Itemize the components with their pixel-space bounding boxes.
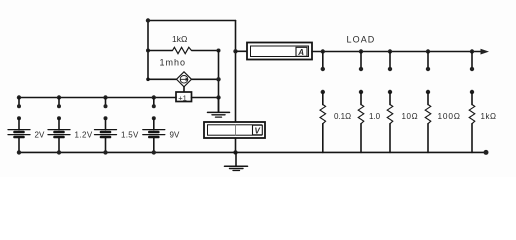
node dot diamond right junction on Y [216, 77, 220, 81]
label 1.2V [75, 131, 93, 140]
label 9V [170, 131, 180, 140]
resistor R 1.0ohm [358, 105, 364, 153]
label 0.1ohm [334, 112, 351, 121]
wire diamond left lead [146, 78, 176, 82]
wire top horizontal node X [148, 20, 236, 22]
load column 1 open switch [321, 49, 325, 104]
label 1.5V [121, 131, 139, 140]
load column 2 open switch [359, 49, 363, 104]
svg-text:10Ω: 10Ω [402, 112, 419, 121]
label 1.0 [369, 112, 381, 121]
svg-text:LOAD: LOAD [347, 35, 376, 45]
wire battery top rail right segment [192, 97, 219, 99]
battery B1 2V [8, 130, 30, 155]
node dot ammeter tap [233, 49, 237, 53]
node dot rail meets Y [216, 95, 220, 99]
battery column 2 switch [57, 95, 61, 129]
ammeter A [247, 43, 312, 60]
arrow at load rail end [481, 49, 490, 55]
svg-text:1.5V: 1.5V [121, 131, 139, 140]
svg-text:0.1Ω: 0.1Ω [334, 112, 351, 121]
svg-text:+1: +1 [178, 93, 187, 102]
label LOAD [347, 35, 376, 45]
resistor R 0.1ohm [320, 105, 326, 153]
battery B2 1.2V [48, 130, 70, 155]
wire right vertical node Y [218, 51, 220, 112]
battery column 3 switch [103, 95, 107, 129]
resistor R 100ohm [425, 105, 431, 153]
wire left vertical of X loop [147, 21, 149, 80]
battery column 4 switch [152, 95, 156, 129]
label 1kohm [172, 34, 187, 44]
svg-text:1.0: 1.0 [369, 112, 381, 121]
battery column 1 switch [17, 95, 21, 129]
label 1kohm load [481, 112, 497, 121]
battery B3 1.5V [95, 130, 117, 155]
svg-text:A: A [297, 48, 304, 57]
label 100ohm [438, 111, 461, 121]
battery B4 9V [143, 130, 165, 155]
load column 4 open switch [426, 49, 430, 104]
svg-text:9V: 9V [170, 131, 180, 140]
ground under bottom rail [225, 152, 248, 170]
resistor R 1kohm horizontal [148, 47, 219, 53]
wire load rail [312, 51, 481, 53]
wire battery top rail left segment [19, 97, 176, 99]
wire main vertical to voltmeter [235, 21, 237, 123]
wire bottom rail [19, 151, 486, 153]
node dot voltmeter bottom [233, 150, 237, 154]
node dot at 1k resistor right corner [217, 49, 221, 53]
ground under node Y [208, 98, 230, 118]
source box +1 [176, 92, 192, 102]
svg-text:1kΩ: 1kΩ [172, 34, 187, 44]
voltmeter V [204, 122, 265, 138]
wire voltmeter to bottom rail [235, 138, 237, 152]
node dot at 1k resistor left junction [146, 49, 150, 53]
resistor R 10ohm [387, 105, 393, 153]
load column 3 open switch [388, 49, 392, 104]
svg-text:1kΩ: 1kΩ [481, 112, 497, 121]
svg-text:1.2V: 1.2V [75, 131, 93, 140]
svg-text:1mho: 1mho [160, 58, 187, 68]
label 10ohm [402, 112, 419, 121]
label 2V [35, 131, 45, 140]
svg-text:V: V [255, 127, 261, 136]
svg-text:2V: 2V [35, 131, 45, 140]
node dot bottom rail end terminal [484, 150, 489, 155]
wire to ammeter [236, 50, 248, 52]
node dot top-left corner [146, 18, 150, 22]
wire diamond right lead [192, 78, 219, 80]
load column 5 open switch [470, 49, 474, 104]
label 1mho [160, 58, 187, 68]
wire diamond bottom to +1 box [183, 87, 185, 92]
svg-text:100Ω: 100Ω [438, 111, 461, 121]
resistor R 1kohm load [469, 105, 475, 153]
dependent source VCCS 1mho diamond [177, 72, 192, 87]
